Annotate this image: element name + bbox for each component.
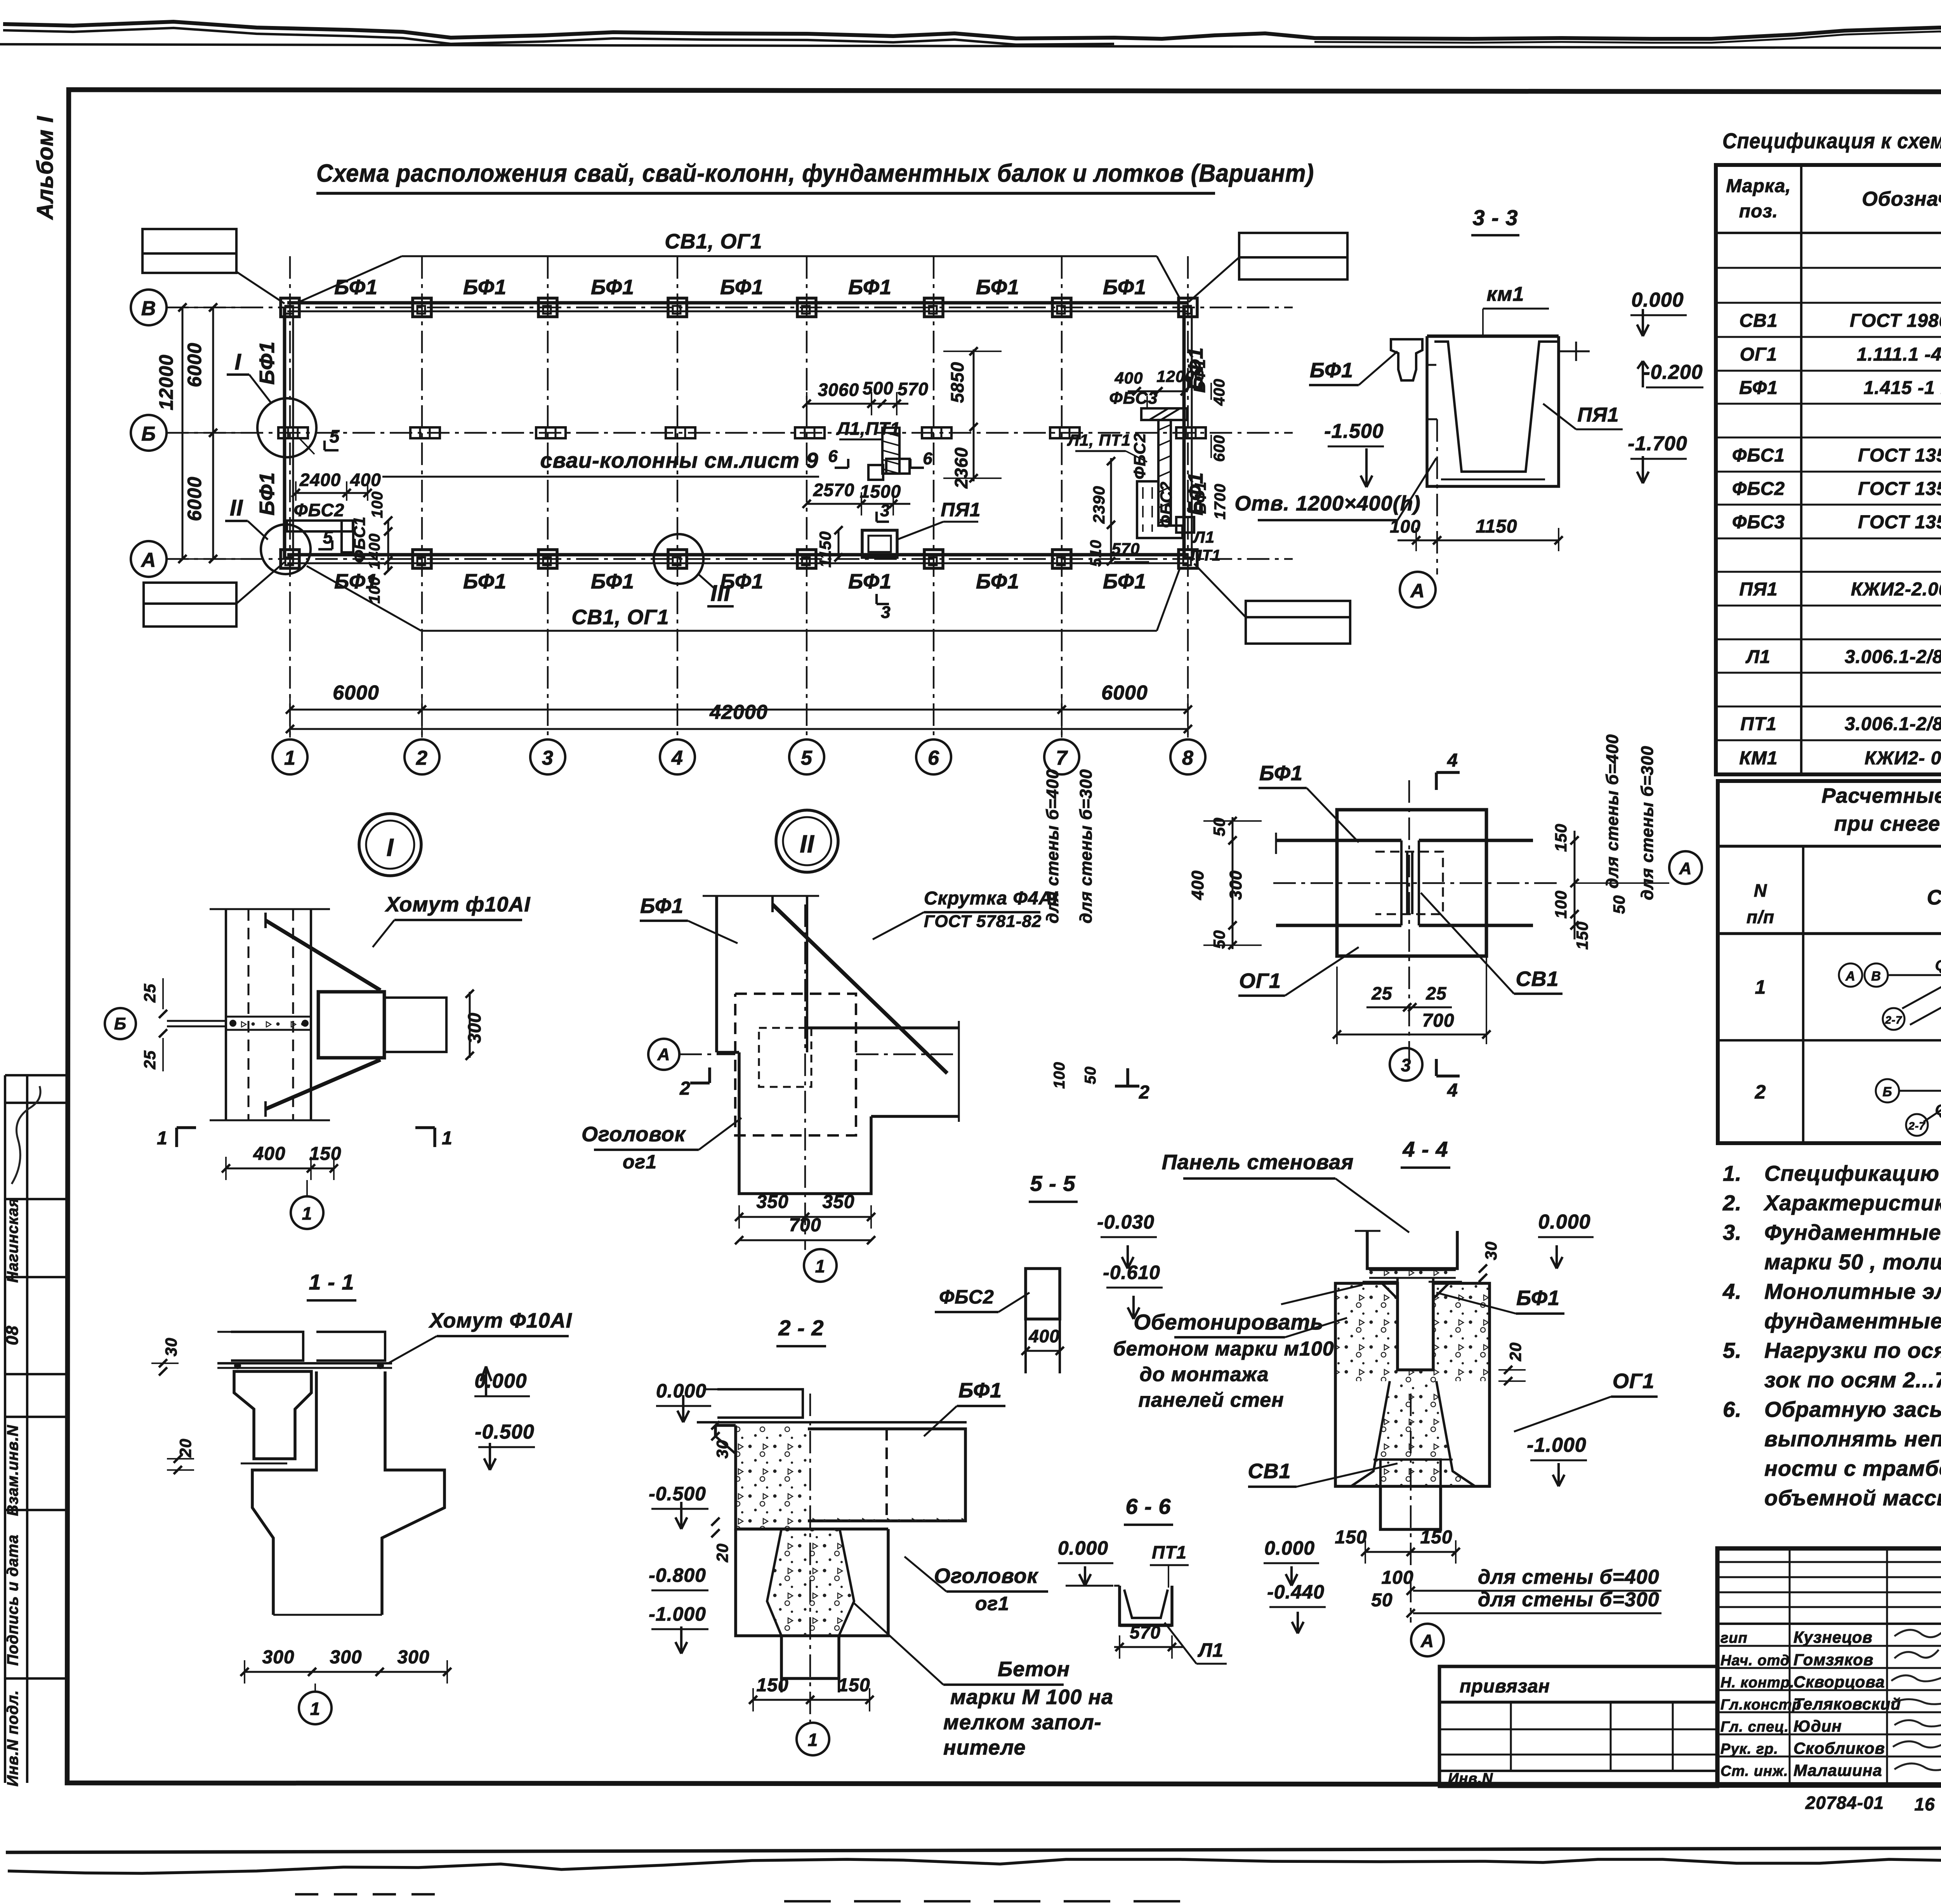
svg-text:1400: 1400 — [366, 533, 383, 569]
svg-text:700: 700 — [1422, 1010, 1454, 1031]
svg-text:50: 50 — [1210, 817, 1228, 837]
svg-text:20: 20 — [713, 1543, 731, 1563]
svg-text:1.415 -1 вып.1: 1.415 -1 вып.1 — [1864, 378, 1941, 398]
svg-text:6 - 6: 6 - 6 — [1125, 1494, 1171, 1519]
svg-text:2: 2 — [416, 747, 428, 769]
svg-text:20: 20 — [1506, 1342, 1524, 1362]
section 6-6 — [1058, 1494, 1326, 1664]
section 3-3 trough ПЯ1 — [1427, 336, 1590, 486]
svg-text:сваи-колонны см.лист 9: сваи-колонны см.лист 9 — [540, 448, 819, 472]
svg-text:2-7: 2-7 — [1908, 1120, 1925, 1132]
svg-text:марки М 100 на: марки М 100 на — [950, 1685, 1113, 1709]
label СВ1 ОГ1 top — [299, 230, 1180, 302]
svg-text:БФ1: БФ1 — [720, 276, 764, 299]
svg-text:30: 30 — [713, 1440, 731, 1459]
svg-text:6000: 6000 — [184, 476, 205, 521]
svg-text:-1.700: -1.700 — [1628, 432, 1687, 455]
svg-text:поз.: поз. — [1739, 201, 1778, 222]
svg-text:мелком запол-: мелком запол- — [943, 1711, 1102, 1734]
spec table rows — [1732, 240, 1941, 769]
svg-text:ОГ1: ОГ1 — [1740, 344, 1778, 365]
svg-text:150: 150 — [1420, 1527, 1452, 1548]
svg-text:4: 4 — [1447, 1080, 1458, 1101]
section 2-2 labels — [649, 1379, 1113, 1759]
load table row 1 — [1755, 955, 1941, 1023]
section 3-3 axis circle А — [1400, 572, 1436, 607]
section mark 5 (lower) — [318, 527, 333, 549]
svg-text:150: 150 — [309, 1144, 341, 1164]
section 1-1 title — [307, 1270, 356, 1300]
svg-text:СВ1: СВ1 — [1739, 311, 1778, 331]
svg-text:ФБС3: ФБС3 — [1732, 512, 1785, 533]
svg-text:для стены б=400: для стены б=400 — [1478, 1566, 1660, 1588]
svg-text:08: 08 — [3, 1326, 22, 1345]
svg-text:БФ1: БФ1 — [463, 570, 507, 593]
svg-text:для стены б=400: для стены б=400 — [1603, 734, 1622, 889]
svg-text:350: 350 — [756, 1192, 788, 1212]
svg-text:5: 5 — [330, 426, 340, 446]
svg-text:1: 1 — [310, 1699, 321, 1719]
svg-text:зок по осям 2...7.: зок по осям 2...7. — [1764, 1368, 1941, 1392]
svg-text:50: 50 — [1082, 1066, 1099, 1085]
svg-text:Б: Б — [141, 423, 156, 445]
svg-text:Панель стеновая: Панель стеновая — [1162, 1151, 1354, 1174]
svg-text:3 - 3: 3 - 3 — [1472, 205, 1518, 230]
svg-text:50: 50 — [1610, 895, 1628, 914]
svg-text:объемной массы скелета гр: объемной массы скелета грунта γск ≥ 1, 6… — [1764, 1486, 1941, 1510]
svg-text:БФ1: БФ1 — [640, 894, 684, 918]
axis circles А Б В — [131, 290, 167, 577]
detail III labels — [1238, 750, 1563, 1101]
section 3-3 km1 label — [1483, 283, 1549, 335]
svg-text:до монтажа: до монтажа — [1140, 1363, 1269, 1386]
dimension 3060 500 570 — [802, 378, 928, 415]
pile-columns on row Б — [278, 427, 1206, 438]
foundation beams row А — [287, 555, 1189, 563]
section 2-2 bottom dims — [749, 1394, 873, 1755]
svg-text:ФБС2: ФБС2 — [939, 1286, 994, 1308]
section 4-4 bottom dims — [1335, 1394, 1661, 1656]
svg-text:12000: 12000 — [155, 354, 177, 410]
svg-text:5: 5 — [801, 747, 813, 769]
svg-text:1: 1 — [302, 1203, 313, 1224]
svg-text:ФБС2: ФБС2 — [1732, 479, 1785, 499]
detail III plan — [1273, 780, 1557, 1064]
svg-text:ГОСТ 13579 -78: ГОСТ 13579 -78 — [1858, 445, 1941, 466]
spec table header — [1726, 176, 1941, 222]
svg-text:Отв. 1200×400(h): Отв. 1200×400(h) — [1234, 492, 1420, 515]
leader box top-left — [142, 229, 285, 304]
section mark 2 near III — [1115, 1068, 1150, 1103]
svg-text:ОГ1: ОГ1 — [1239, 969, 1281, 993]
БФ1 labels verticals — [255, 341, 1207, 515]
svg-text:Л1: Л1 — [1193, 528, 1215, 546]
svg-text:300: 300 — [464, 1012, 484, 1043]
svg-text:4: 4 — [1447, 750, 1458, 771]
svg-text:Оголовок: Оголовок — [934, 1564, 1039, 1588]
lotok Л1 ПТ1 detail — [836, 418, 910, 480]
svg-text:6000: 6000 — [184, 342, 205, 387]
svg-text:-0.610: -0.610 — [1103, 1262, 1160, 1283]
svg-text:25: 25 — [1371, 983, 1392, 1003]
svg-text:ГОСТ 13579 -78: ГОСТ 13579 -78 — [1858, 512, 1941, 533]
svg-text:I: I — [387, 833, 394, 861]
svg-text:ог1: ог1 — [623, 1151, 657, 1173]
svg-text:гип: гип — [1721, 1630, 1748, 1646]
svg-text:1: 1 — [808, 1730, 818, 1750]
svg-text:Обратную засыпку пазух , а: Обратную засыпку пазух , а также подсыпк… — [1764, 1397, 1941, 1421]
svg-text:400: 400 — [1114, 369, 1143, 387]
svg-text:150: 150 — [838, 1675, 870, 1696]
section mark 5 (upper) — [299, 426, 340, 454]
svg-text:1.111.1 -4 вып.1: 1.111.1 -4 вып.1 — [1857, 344, 1941, 365]
svg-text:25: 25 — [141, 1050, 159, 1070]
svg-text:-0.440: -0.440 — [1267, 1581, 1325, 1603]
svg-text:БФ1: БФ1 — [848, 276, 892, 299]
detail II labels — [582, 888, 1058, 1173]
detail circle III — [654, 534, 734, 606]
svg-text:ПТ1: ПТ1 — [1152, 1542, 1187, 1562]
svg-text:1 - 1: 1 - 1 — [309, 1270, 354, 1294]
svg-text:ПЯ1: ПЯ1 — [941, 499, 981, 521]
svg-text:Инв.N: Инв.N — [1448, 1770, 1493, 1787]
svg-text:3.006.1-2/82 вып.0: 3.006.1-2/82 вып.0 — [1845, 714, 1941, 734]
svg-text:выполнять непучинистым грун: выполнять непучинистым грунтом оптимальн… — [1764, 1427, 1941, 1451]
svg-text:ФБС2: ФБС2 — [1130, 433, 1149, 479]
svg-text:6000: 6000 — [333, 682, 379, 704]
svg-text:В: В — [1871, 969, 1881, 984]
svg-text:Рук. гр.: Рук. гр. — [1721, 1741, 1778, 1757]
svg-text:Л1, ПТ1: Л1, ПТ1 — [1067, 431, 1131, 449]
foundation beam grid 1 vertical — [285, 307, 293, 560]
section 4-4 drawing — [1335, 1231, 1490, 1529]
svg-text:для стены б=300: для стены б=300 — [1478, 1588, 1660, 1611]
svg-text:3: 3 — [1401, 1055, 1411, 1075]
load table header texts — [1747, 847, 1941, 927]
svg-text:2: 2 — [1755, 1081, 1766, 1103]
title block main — [1717, 1548, 1941, 1786]
svg-text:1: 1 — [157, 1128, 168, 1149]
svg-text:фундаментные балки и блоки: фундаментные балки и блоки – морозостойк… — [1764, 1309, 1941, 1333]
svg-text:500: 500 — [863, 378, 894, 398]
load table grid — [1718, 846, 1941, 1143]
load table row 2 — [1755, 1061, 1941, 1128]
svg-text:нителе: нителе — [943, 1736, 1026, 1759]
svg-text:п/п: п/п — [1747, 907, 1774, 927]
svg-text:КЖИ2- 0.07.00: КЖИ2- 0.07.00 — [1865, 748, 1941, 769]
svg-text:4.: 4. — [1722, 1279, 1742, 1303]
svg-text:6.: 6. — [1723, 1397, 1742, 1421]
svg-text:В: В — [141, 297, 156, 320]
svg-text:БФ1: БФ1 — [463, 276, 507, 299]
section 3-3 title — [1471, 205, 1519, 235]
detail I axis Б — [105, 978, 167, 1071]
rotated wall notes left of III — [1043, 769, 1099, 1095]
svg-text:5850: 5850 — [947, 362, 967, 403]
svg-text:7: 7 — [1056, 747, 1068, 769]
svg-text:ог1: ог1 — [975, 1593, 1009, 1614]
svg-text:100: 100 — [1051, 1062, 1068, 1089]
svg-text:2400: 2400 — [299, 470, 341, 490]
svg-text:БФ1: БФ1 — [1192, 481, 1209, 514]
svg-text:Скрутка Ф4АI: Скрутка Ф4АI — [924, 888, 1058, 909]
svg-text:2: 2 — [679, 1078, 691, 1099]
svg-text:300: 300 — [397, 1647, 429, 1668]
svg-text:400: 400 — [350, 470, 381, 490]
svg-text:25: 25 — [141, 984, 159, 1003]
svg-text:ФБС2: ФБС2 — [1157, 481, 1175, 528]
svg-text:Скобликов: Скобликов — [1793, 1739, 1885, 1757]
svg-text:БФ1: БФ1 — [1516, 1286, 1560, 1310]
svg-text:3: 3 — [881, 603, 891, 622]
svg-text:0.000: 0.000 — [656, 1380, 707, 1402]
svg-text:ности с трамбованием слоям: ности с трамбованием слоями 200 -300 мм … — [1764, 1456, 1941, 1481]
svg-text:БФ1: БФ1 — [1103, 570, 1146, 593]
svg-text:6: 6 — [928, 747, 939, 769]
svg-text:СВ1, ОГ1: СВ1, ОГ1 — [665, 230, 762, 253]
svg-text:2360: 2360 — [951, 447, 971, 489]
svg-text:2570: 2570 — [813, 480, 854, 500]
svg-text:-0.500: -0.500 — [475, 1421, 534, 1443]
svg-text:ФБС2: ФБС2 — [294, 500, 345, 520]
svg-text:1: 1 — [442, 1128, 453, 1149]
section 1-1 bottom dims — [240, 1647, 451, 1724]
svg-text:6: 6 — [828, 447, 838, 466]
svg-text:300: 300 — [330, 1647, 362, 1668]
detail I beam plan — [167, 909, 330, 1120]
svg-text:БФ1: БФ1 — [1739, 378, 1778, 398]
section marks 3 — [877, 501, 891, 622]
svg-text:Гл. спец.: Гл. спец. — [1721, 1719, 1789, 1735]
svg-text:1.: 1. — [1723, 1161, 1742, 1185]
svg-text:Альбом I: Альбом I — [33, 116, 58, 220]
svg-text:5 - 5: 5 - 5 — [1030, 1171, 1075, 1196]
svg-text:Л1,ПТ1: Л1,ПТ1 — [836, 418, 901, 439]
svg-text:БФ1: БФ1 — [1259, 762, 1303, 785]
main plan title — [316, 159, 1314, 193]
title block names — [1721, 1628, 1941, 1779]
svg-text:-0.200: -0.200 — [1643, 361, 1703, 384]
svg-text:СВ1: СВ1 — [1516, 967, 1559, 991]
svg-text:БФ1: БФ1 — [1190, 359, 1208, 393]
svg-text:Гл.констр: Гл.констр — [1721, 1697, 1802, 1713]
svg-text:3.: 3. — [1723, 1220, 1742, 1244]
svg-text:4 - 4: 4 - 4 — [1402, 1137, 1448, 1161]
svg-text:6000: 6000 — [1101, 682, 1148, 704]
ФБС1 ФБС2 detail near grid 1 — [287, 470, 392, 604]
dimension 2570 1500 — [802, 480, 910, 515]
svg-text:-0.030: -0.030 — [1097, 1211, 1155, 1233]
svg-text:8: 8 — [1182, 747, 1194, 769]
svg-text:Юдин: Юдин — [1793, 1717, 1842, 1735]
svg-text:4: 4 — [671, 747, 683, 769]
svg-text:400: 400 — [1028, 1326, 1060, 1346]
svg-text:СВ1, ОГ1: СВ1, ОГ1 — [571, 606, 669, 629]
svg-text:2390: 2390 — [1090, 486, 1108, 524]
svg-text:1200: 1200 — [1156, 367, 1194, 385]
section 4-4 title — [1401, 1137, 1450, 1168]
svg-text:Q: Q — [1935, 1102, 1941, 1118]
svg-text:Кузнецов: Кузнецов — [1793, 1628, 1873, 1646]
svg-text:Характеристики грунта осно: Характеристики грунта основания даны на … — [1763, 1191, 1941, 1215]
svg-text:300: 300 — [262, 1647, 294, 1668]
svg-text:II: II — [800, 830, 814, 858]
svg-text:3.006.1-2/82 вып.0: 3.006.1-2/82 вып.0 — [1845, 647, 1941, 667]
priamok ПЯ1 — [816, 499, 981, 568]
svg-text:III: III — [710, 581, 731, 606]
load table row 2 schema — [1876, 1042, 1941, 1136]
svg-text:А: А — [141, 549, 156, 571]
leader box bottom-right — [1194, 564, 1350, 644]
svg-text:ПЯ1: ПЯ1 — [1739, 579, 1778, 600]
svg-text:А: А — [1410, 580, 1425, 602]
svg-text:1500: 1500 — [860, 481, 901, 502]
svg-text:6: 6 — [923, 449, 932, 468]
detail circle I — [227, 349, 316, 457]
svg-text:ФБС1: ФБС1 — [350, 516, 368, 563]
detail II drawing — [703, 896, 959, 1194]
svg-text:БФ1: БФ1 — [334, 276, 378, 299]
label СВ1 ОГ1 bottom — [307, 566, 1180, 631]
svg-text:Схема расположения свай, свай-: Схема расположения свай, свай-колонн, фу… — [316, 159, 1314, 187]
section 2-2 title — [776, 1316, 826, 1346]
svg-text:КМ1: КМ1 — [1739, 748, 1778, 769]
svg-text:ОГ1: ОГ1 — [1613, 1369, 1655, 1393]
notes list — [1722, 1161, 1941, 1510]
svg-text:16: 16 — [1914, 1794, 1935, 1814]
svg-text:Подпись и дата: Подпись и дата — [4, 1534, 21, 1666]
svg-text:3060: 3060 — [818, 380, 859, 400]
section 4-4 labels — [1113, 1151, 1658, 1487]
svg-text:для стены б=400: для стены б=400 — [1043, 769, 1062, 923]
svg-text:БФ1: БФ1 — [591, 570, 634, 593]
svg-text:для стены б=300: для стены б=300 — [1638, 746, 1657, 900]
svg-text:400: 400 — [1188, 870, 1207, 900]
svg-text:Взам.инв.N: Взам.инв.N — [4, 1425, 21, 1516]
section 5-5 — [935, 1171, 1163, 1373]
privyazan box — [1439, 1666, 1717, 1787]
svg-text:панелей стен: панелей стен — [1138, 1389, 1284, 1411]
svg-text:для стены б=300: для стены б=300 — [1076, 769, 1096, 923]
svg-text:Хомут Ф10АI: Хомут Ф10АI — [428, 1309, 572, 1332]
section 3-3 level marks — [1543, 289, 1703, 483]
grid circles 1-8 — [273, 739, 1205, 774]
svg-text:5: 5 — [323, 527, 333, 547]
svg-text:Теляковский: Теляковский — [1793, 1695, 1901, 1713]
svg-text:А: А — [1845, 969, 1856, 984]
svg-text:БФ1: БФ1 — [255, 341, 279, 385]
svg-text:Л1: Л1 — [1745, 647, 1771, 667]
svg-text:Малашина: Малашина — [1793, 1761, 1882, 1779]
detail I section marks 1 — [157, 1128, 453, 1149]
svg-text:ПТ1: ПТ1 — [1191, 547, 1221, 564]
svg-text:Гомзяков: Гомзяков — [1793, 1651, 1873, 1669]
section 2-2 drawing — [697, 1389, 974, 1692]
detail I tie rods — [266, 893, 530, 1117]
svg-text:350: 350 — [822, 1192, 854, 1212]
svg-text:100: 100 — [1552, 890, 1570, 918]
svg-text:Схема: Схема — [1927, 886, 1941, 909]
load table row 1 schema — [1839, 924, 1941, 1030]
detail circle II — [225, 495, 311, 574]
svg-text:ГОСТ 19804.4 -78: ГОСТ 19804.4 -78 — [1850, 311, 1941, 331]
svg-text:БФ1: БФ1 — [848, 570, 892, 593]
svg-text:42000: 42000 — [709, 701, 768, 724]
left stamp column — [3, 1075, 67, 1786]
svg-text:2: 2 — [1139, 1082, 1150, 1103]
detail II circle label — [776, 810, 838, 872]
plan bottom dimension lines — [286, 682, 1192, 738]
svg-text:Нагинская: Нагинская — [4, 1198, 21, 1283]
svg-text:Нач. отд: Нач. отд — [1721, 1652, 1790, 1669]
svg-text:ГОСТ 13579 -78: ГОСТ 13579 -78 — [1858, 479, 1941, 499]
svg-text:БФ1: БФ1 — [976, 570, 1019, 593]
plan axis lines — [166, 256, 1293, 739]
ФБС3 detail near grid 8 — [1067, 359, 1229, 567]
foundation beams row В — [287, 303, 1189, 311]
section marks 6 — [828, 447, 932, 468]
plan dimension 12000 left — [155, 303, 187, 563]
svg-text:100: 100 — [369, 491, 386, 518]
plan dimensions 6000 left — [166, 303, 241, 563]
svg-text:Марка,: Марка, — [1726, 176, 1791, 196]
svg-text:0.000: 0.000 — [1631, 289, 1684, 311]
svg-text:Б: Б — [114, 1014, 127, 1033]
svg-text:БФ1: БФ1 — [976, 276, 1019, 299]
svg-text:Q: Q — [1935, 958, 1941, 974]
svg-text:2-7: 2-7 — [1885, 1014, 1902, 1026]
svg-text:3: 3 — [880, 501, 890, 520]
svg-text:КЖИ2-2.00.00 СБ: КЖИ2-2.00.00 СБ — [1851, 579, 1941, 600]
svg-text:Б: Б — [1882, 1085, 1892, 1099]
svg-text:км1: км1 — [1487, 283, 1524, 305]
svg-text:ФБС3: ФБС3 — [1109, 389, 1158, 408]
spec table grid — [1716, 165, 1941, 774]
svg-text:Бетон: Бетон — [998, 1658, 1070, 1681]
svg-text:-1.000: -1.000 — [649, 1603, 706, 1625]
section 3-3 opening note — [1234, 420, 1436, 520]
leader box top-right — [1189, 233, 1347, 302]
svg-text:ФБС1: ФБС1 — [1732, 445, 1785, 466]
svg-text:бетоном марки м100: бетоном марки м100 — [1113, 1338, 1334, 1360]
svg-text:БФ1: БФ1 — [1103, 276, 1146, 299]
section 1-1 drawing — [217, 1332, 444, 1615]
svg-text:1150: 1150 — [1476, 516, 1517, 537]
svg-text:5.: 5. — [1723, 1338, 1742, 1362]
svg-text:БФ1: БФ1 — [1310, 359, 1353, 382]
detail II dims — [735, 904, 875, 1282]
svg-text:Хомут ф10АI: Хомут ф10АI — [385, 893, 531, 916]
svg-text:1150: 1150 — [816, 531, 834, 568]
svg-text:600: 600 — [1211, 435, 1228, 462]
section 3-3 beam БФ1 end — [1309, 339, 1422, 385]
svg-text:50: 50 — [1371, 1590, 1392, 1611]
svg-text:А: А — [1420, 1631, 1434, 1651]
svg-text:Спецификацию на сваи- колонн: Спецификацию на сваи- колонны см. на лис… — [1764, 1161, 1941, 1185]
svg-text:Оголовок: Оголовок — [582, 1123, 686, 1146]
svg-text:ПТ1: ПТ1 — [1740, 714, 1777, 734]
svg-text:-0.800: -0.800 — [649, 1564, 706, 1586]
svg-text:Монолитные элементы набето: Монолитные элементы набетонок из бетона … — [1764, 1279, 1941, 1303]
svg-text:Н. контр.: Н. контр. — [1721, 1675, 1795, 1691]
svg-text:400: 400 — [1211, 378, 1228, 406]
svg-text:Спецификация к схеме расположе: Спецификация к схеме расположения свай, … — [1722, 128, 1941, 153]
svg-text:400: 400 — [253, 1144, 285, 1164]
svg-text:Л1: Л1 — [1198, 1639, 1224, 1661]
svg-text:Ст. инж.: Ст. инж. — [1721, 1763, 1788, 1779]
svg-text:570: 570 — [1111, 540, 1140, 558]
svg-text:30: 30 — [1482, 1241, 1500, 1260]
